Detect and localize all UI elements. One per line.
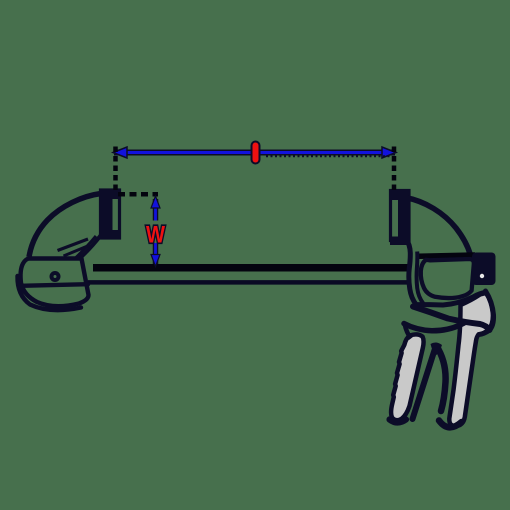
linkage left branch [413,347,436,419]
handle rear edge [479,291,494,335]
handle bottom cap [439,421,462,428]
left jaw pad [99,190,120,238]
right jaw pad [390,191,409,246]
jaw-top dashed line [118,192,158,197]
svg-text:W: W [146,222,166,249]
right arm inner curve / body outer left edge / body bottom [406,238,486,306]
right arrowhead [382,147,396,158]
release tab [472,253,496,286]
end cap mid line [21,284,88,286]
linkage right branch [437,346,446,411]
collar curve [404,323,464,331]
bar bottom edge [88,280,410,285]
linkage apex [431,342,443,355]
end cap hole [52,273,59,280]
end cap shadow outline [17,276,81,310]
left end cap [17,259,88,311]
label l [251,146,261,160]
body inner window [421,259,474,298]
right extension dashed line [392,147,397,191]
dotted underline right half [266,155,392,157]
arm-to-cap joint lines [58,239,89,251]
trigger (gray) [391,334,424,420]
W dimension lower arrow [151,243,160,267]
left arm inner curves [80,235,101,258]
body inner left edge [417,252,424,304]
right arm outer curve [405,198,471,256]
left arrowhead [113,147,127,158]
diagonal brace line [413,307,490,331]
clamp body top edge [419,255,475,256]
handle grip (gray) [449,293,493,426]
top dimension line [113,147,396,158]
trigger bottom cap [390,420,407,423]
left arm outer curve [29,194,101,258]
left extension dashed line [113,147,118,192]
bar top edge [93,264,412,272]
collar-trigger joint [405,324,412,339]
W dimension upper arrow [151,196,160,221]
